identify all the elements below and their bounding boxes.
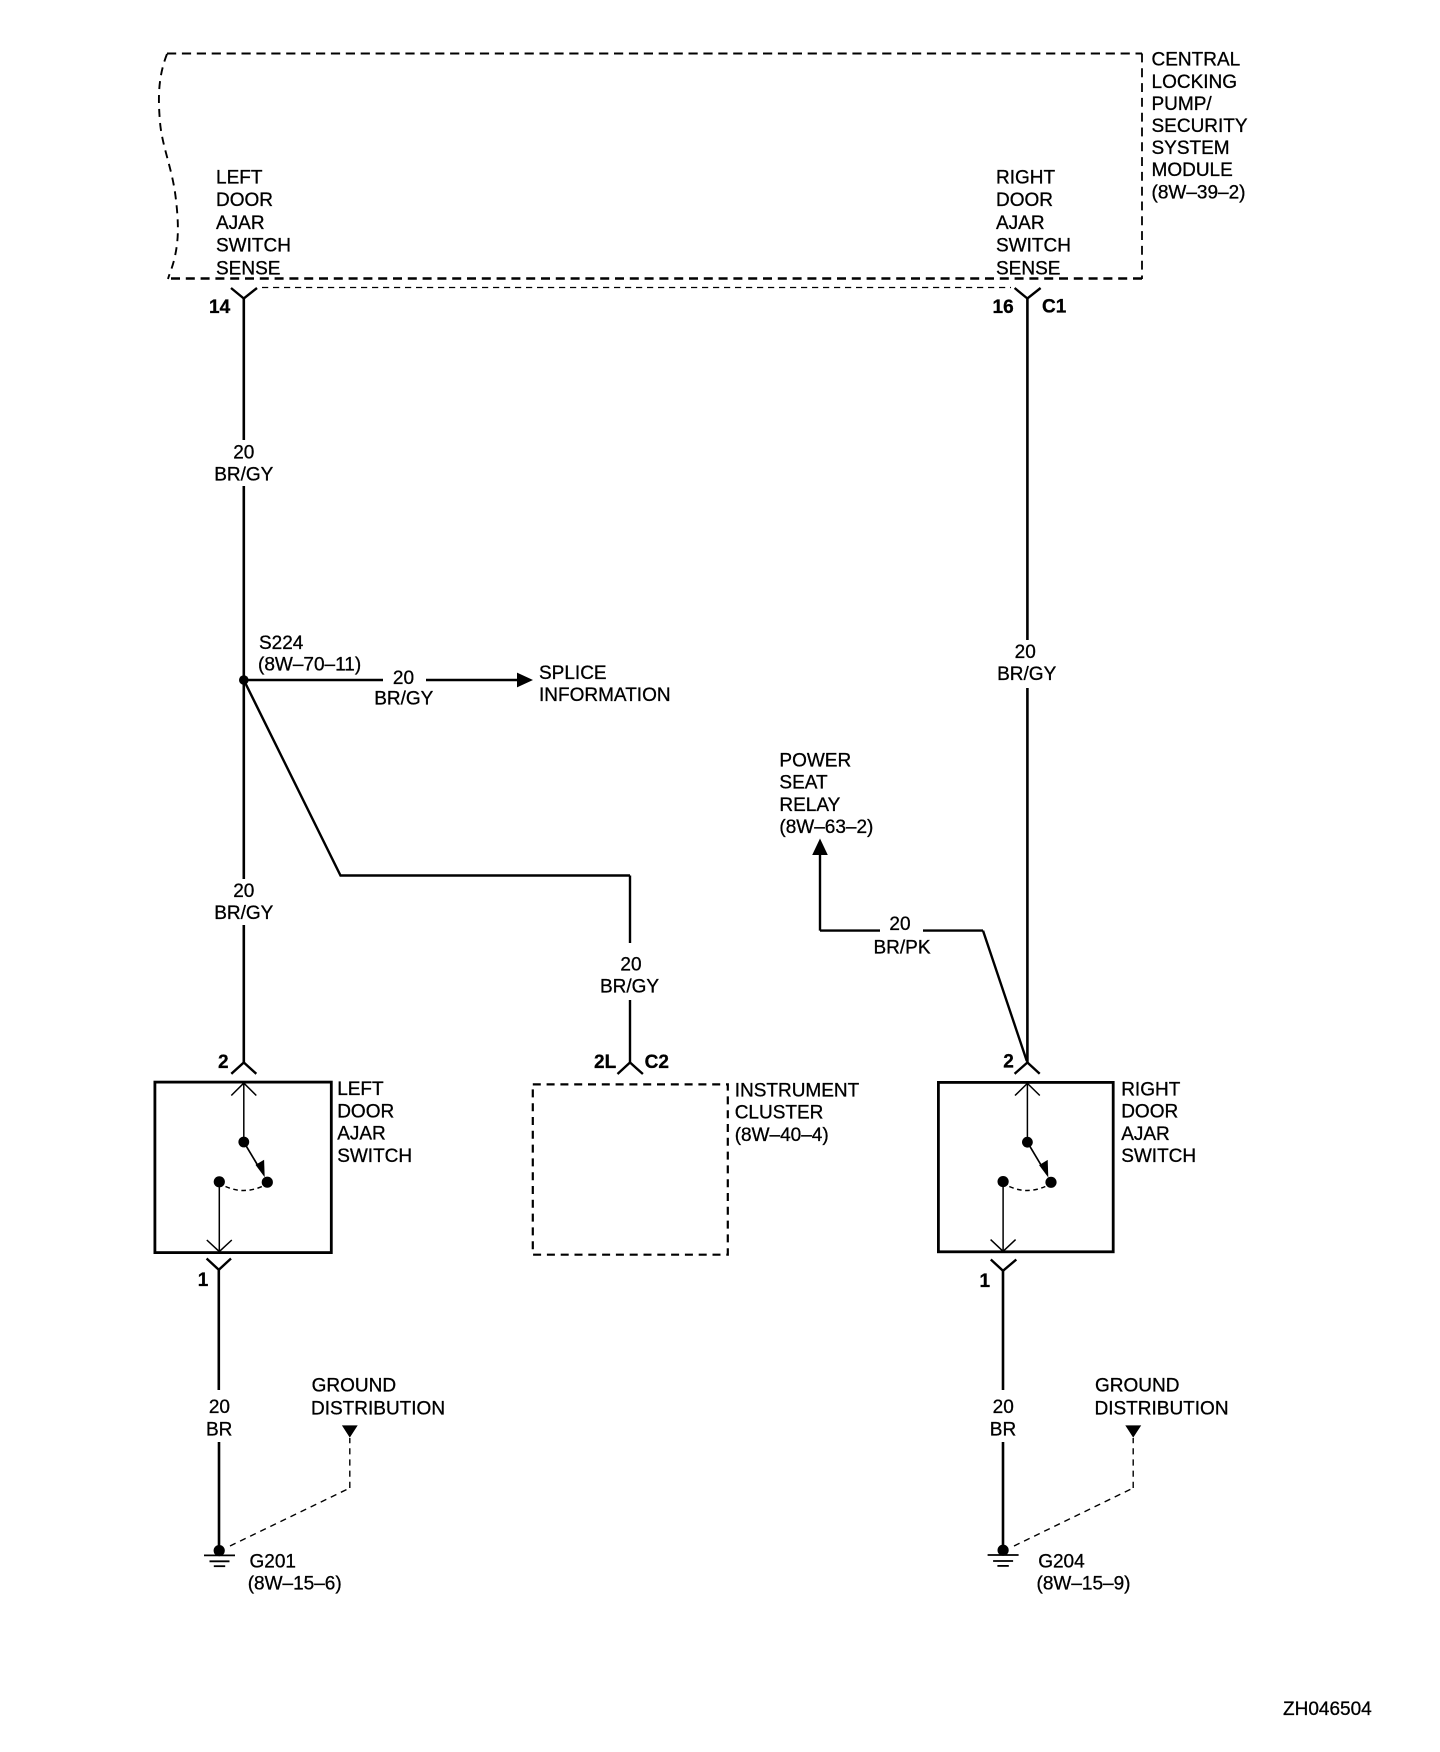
svg-text:1: 1 — [980, 1271, 991, 1292]
svg-text:AJAR: AJAR — [996, 213, 1045, 234]
svg-text:SYSTEM: SYSTEM — [1152, 138, 1230, 159]
svg-text:SECURITY: SECURITY — [1152, 116, 1248, 137]
svg-text:20: 20 — [889, 914, 910, 935]
svg-text:INSTRUMENT: INSTRUMENT — [735, 1080, 860, 1101]
svg-text:14: 14 — [209, 297, 231, 318]
svg-text:BR/GY: BR/GY — [600, 977, 659, 998]
svg-text:(8W–15–9): (8W–15–9) — [1037, 1574, 1131, 1595]
svg-text:LEFT: LEFT — [216, 168, 263, 189]
svg-text:SPLICE: SPLICE — [539, 663, 607, 684]
svg-text:SEAT: SEAT — [779, 773, 828, 794]
svg-text:ZH046504: ZH046504 — [1283, 1699, 1372, 1720]
svg-text:20: 20 — [1015, 642, 1036, 663]
svg-text:RIGHT: RIGHT — [1121, 1080, 1181, 1101]
svg-text:SENSE: SENSE — [996, 258, 1060, 279]
svg-text:BR/GY: BR/GY — [214, 903, 273, 924]
svg-text:SWITCH: SWITCH — [1121, 1146, 1196, 1167]
svg-text:MODULE: MODULE — [1152, 160, 1233, 181]
svg-text:(8W–39–2): (8W–39–2) — [1152, 182, 1246, 203]
svg-text:G201: G201 — [250, 1552, 296, 1573]
svg-text:SWITCH: SWITCH — [337, 1146, 412, 1167]
svg-text:BR/GY: BR/GY — [214, 465, 273, 486]
svg-text:20: 20 — [993, 1397, 1014, 1418]
svg-text:DOOR: DOOR — [337, 1101, 394, 1122]
svg-text:GROUND: GROUND — [312, 1376, 396, 1397]
svg-text:20: 20 — [620, 955, 641, 976]
svg-text:BR: BR — [206, 1420, 232, 1441]
svg-text:LEFT: LEFT — [337, 1079, 384, 1100]
svg-text:(8W–40–4): (8W–40–4) — [735, 1125, 829, 1146]
svg-text:DOOR: DOOR — [1121, 1102, 1178, 1123]
svg-text:BR/PK: BR/PK — [873, 938, 930, 959]
svg-text:AJAR: AJAR — [216, 213, 265, 234]
svg-text:(8W–63–2): (8W–63–2) — [779, 817, 873, 838]
svg-text:SWITCH: SWITCH — [996, 236, 1071, 257]
svg-text:20: 20 — [233, 443, 254, 464]
svg-text:BR: BR — [990, 1420, 1016, 1441]
svg-text:C1: C1 — [1042, 297, 1067, 318]
svg-text:LOCKING: LOCKING — [1152, 72, 1238, 93]
svg-text:(8W–70–11): (8W–70–11) — [258, 655, 361, 676]
svg-text:DOOR: DOOR — [996, 190, 1053, 211]
svg-text:RIGHT: RIGHT — [996, 168, 1056, 189]
svg-text:AJAR: AJAR — [337, 1124, 386, 1145]
svg-text:GROUND: GROUND — [1095, 1376, 1179, 1397]
svg-text:S224: S224 — [259, 633, 304, 654]
svg-text:G204: G204 — [1038, 1552, 1085, 1573]
svg-text:1: 1 — [198, 1270, 209, 1291]
svg-text:2: 2 — [1003, 1052, 1014, 1073]
svg-text:SENSE: SENSE — [216, 258, 280, 279]
svg-text:POWER: POWER — [779, 750, 851, 771]
svg-text:20: 20 — [393, 668, 414, 689]
svg-text:DISTRIBUTION: DISTRIBUTION — [1095, 1399, 1229, 1420]
svg-text:CENTRAL: CENTRAL — [1152, 50, 1241, 71]
svg-text:INFORMATION: INFORMATION — [539, 685, 671, 706]
svg-text:BR/GY: BR/GY — [997, 664, 1056, 685]
svg-text:2: 2 — [218, 1052, 229, 1073]
svg-text:(8W–15–6): (8W–15–6) — [248, 1574, 342, 1595]
svg-text:C2: C2 — [645, 1052, 669, 1073]
svg-text:2L: 2L — [594, 1052, 617, 1073]
svg-text:PUMP/: PUMP/ — [1152, 94, 1213, 115]
svg-text:DOOR: DOOR — [216, 190, 273, 211]
svg-text:20: 20 — [233, 881, 254, 902]
svg-text:CLUSTER: CLUSTER — [735, 1103, 824, 1124]
svg-text:AJAR: AJAR — [1121, 1124, 1170, 1145]
svg-text:RELAY: RELAY — [779, 795, 840, 816]
svg-text:BR/GY: BR/GY — [374, 689, 433, 710]
svg-text:DISTRIBUTION: DISTRIBUTION — [311, 1399, 445, 1420]
svg-text:16: 16 — [993, 297, 1014, 318]
svg-text:20: 20 — [209, 1397, 230, 1418]
svg-text:SWITCH: SWITCH — [216, 236, 291, 257]
